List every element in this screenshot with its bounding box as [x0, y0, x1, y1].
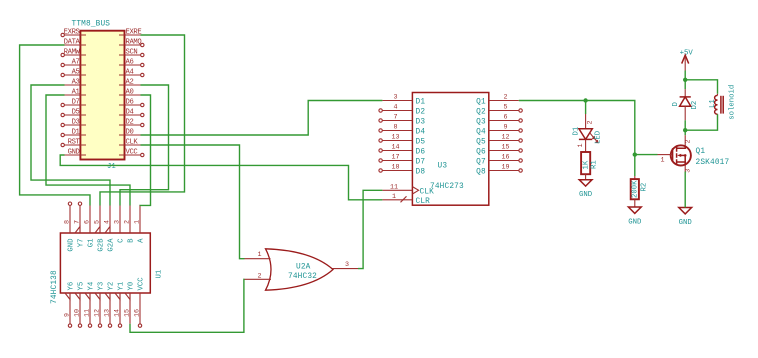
- LED D1: [573, 114, 603, 152]
- wire D0 to U3.D1: [141, 101, 383, 136]
- svg-text:Q1: Q1: [476, 99, 486, 107]
- diode D2: [672, 89, 699, 120]
- wire CLK to U2A.1: [141, 145, 245, 259]
- wire U1.Y0 to U2A.2: [130, 279, 245, 332]
- svg-text:7: 7: [74, 220, 82, 224]
- U3 pin 15 Q6: [476, 144, 522, 157]
- wire L1 bottom to drain node: [685, 114, 717, 130]
- svg-text:U3: U3: [438, 163, 448, 171]
- svg-text:C: C: [118, 238, 126, 243]
- IC U3 74HC273: [412, 93, 488, 206]
- U3 pin 8 D4: [379, 124, 425, 137]
- U3 pin 1 CLR: [382, 193, 430, 206]
- U3 pin 19 Q8: [476, 164, 522, 177]
- U3 pin 17 D7: [379, 154, 425, 167]
- svg-text:DATA: DATA: [64, 39, 81, 47]
- svg-text:L1: L1: [709, 99, 717, 108]
- wire GND to U3.CLR: [60, 155, 382, 200]
- svg-text:3: 3: [114, 220, 122, 224]
- svg-text:1K: 1K: [582, 160, 590, 169]
- U1 pin 6 G1 (top): [84, 206, 96, 248]
- resistor R2 200K: [631, 176, 649, 207]
- wire D2 to Q1 drain: [684, 120, 686, 135]
- svg-text:Y7: Y7: [78, 239, 86, 248]
- wire A1 to U1.B: [46, 95, 130, 206]
- svg-text:Q8: Q8: [476, 169, 486, 177]
- svg-text:D4: D4: [416, 129, 426, 137]
- svg-text:U2A: U2A: [296, 264, 311, 272]
- U2A pin 1 input: [245, 251, 271, 259]
- svg-text:EXRE: EXRE: [126, 29, 142, 37]
- svg-text:16: 16: [501, 154, 509, 162]
- U3 pin 7 D3: [379, 114, 425, 127]
- svg-text:CLR: CLR: [416, 198, 431, 206]
- svg-text:3: 3: [345, 261, 349, 269]
- svg-text:18: 18: [391, 164, 399, 172]
- svg-text:15: 15: [124, 309, 132, 317]
- svg-text:D1: D1: [416, 99, 426, 107]
- svg-text:VCC: VCC: [126, 149, 139, 157]
- wire EXRE to U1.G2B: [100, 35, 185, 206]
- svg-text:9: 9: [64, 313, 72, 317]
- svg-text:A7: A7: [72, 59, 80, 67]
- J1 pin D0 (right row 11): [119, 129, 141, 137]
- svg-text:6: 6: [503, 114, 507, 122]
- U2A pin 3 output: [333, 261, 359, 269]
- svg-text:R1: R1: [591, 160, 599, 169]
- U1 pin 4 G2A (top): [104, 206, 116, 252]
- svg-text:4: 4: [393, 104, 397, 112]
- svg-text:SCN: SCN: [126, 49, 138, 57]
- U2A pin 2 input: [245, 272, 272, 280]
- svg-text:D2: D2: [691, 101, 699, 110]
- J1 pin A3 (left row 6): [65, 79, 87, 87]
- U3 pin 5 Q2: [476, 104, 522, 117]
- J1 pin D3 (left row 10): [61, 119, 86, 127]
- svg-text:A4: A4: [126, 69, 134, 77]
- U3 pin 6 Q3: [476, 114, 522, 127]
- J1 pin D2 (right row 10): [119, 119, 144, 127]
- svg-text:1: 1: [134, 220, 142, 224]
- svg-text:D4: D4: [126, 109, 134, 117]
- svg-text:2: 2: [587, 120, 595, 124]
- svg-text:D2: D2: [416, 109, 426, 117]
- svg-text:RST: RST: [68, 139, 81, 147]
- svg-text:G1: G1: [88, 238, 96, 247]
- U3 pin 4 D2: [379, 104, 425, 117]
- svg-text:5: 5: [503, 104, 507, 112]
- svg-text:Q6: Q6: [476, 149, 486, 157]
- svg-text:7: 7: [393, 114, 397, 122]
- svg-text:A1: A1: [72, 89, 80, 97]
- svg-text:Q2: Q2: [476, 109, 486, 117]
- svg-text:GND: GND: [679, 219, 693, 227]
- svg-text:Q5: Q5: [476, 139, 486, 147]
- svg-text:2: 2: [503, 94, 507, 102]
- svg-text:200K: 200K: [631, 180, 639, 198]
- svg-text:D3: D3: [72, 119, 80, 127]
- svg-text:D6: D6: [126, 99, 134, 107]
- svg-text:VCC: VCC: [138, 277, 146, 291]
- resistor R1 1K: [581, 152, 599, 180]
- svg-text:15: 15: [501, 144, 509, 152]
- svg-text:G2A: G2A: [108, 238, 116, 252]
- J1 pin A5 (left row 5): [61, 69, 86, 77]
- svg-text:6: 6: [84, 220, 92, 224]
- svg-text:D5: D5: [416, 139, 426, 147]
- ground GND (below R2): [628, 207, 642, 226]
- svg-text:+5V: +5V: [680, 49, 694, 57]
- svg-text:Y6: Y6: [68, 282, 76, 291]
- U1 pin 11 Y4 (bottom): [84, 281, 96, 327]
- U1 pin 5 G2B (top): [94, 206, 106, 252]
- ground GND (below Q1 source): [679, 208, 693, 227]
- U1 pin 16 VCC (bottom): [134, 277, 146, 328]
- J1 pin A4 (right row 5): [119, 69, 144, 77]
- svg-text:74HC138: 74HC138: [51, 270, 59, 304]
- U1 pin 13 Y2 (bottom): [104, 282, 116, 328]
- svg-text:Q1: Q1: [696, 148, 706, 156]
- svg-text:1: 1: [577, 143, 585, 147]
- svg-text:14: 14: [114, 309, 122, 317]
- svg-text:17: 17: [391, 154, 399, 162]
- svg-text:1: 1: [257, 251, 261, 259]
- svg-text:D7: D7: [416, 159, 426, 167]
- transistor Q1 2SK4017 (N-MOSFET): [658, 135, 730, 173]
- U1 pin 15 Y0 (bottom): [124, 282, 136, 324]
- J1 pin CLK (right row 12): [119, 139, 141, 147]
- svg-text:19: 19: [501, 164, 509, 172]
- U3 pin 18 D8: [379, 164, 425, 177]
- svg-text:Y0: Y0: [128, 282, 136, 291]
- U3 pin 12 Q5: [476, 134, 522, 147]
- node +5V / D2 / L1: [683, 78, 687, 82]
- J1 pin EXRS (left row 1): [61, 29, 86, 37]
- svg-text:GND: GND: [628, 218, 642, 226]
- svg-text:Y3: Y3: [98, 282, 106, 291]
- U3 pin 14 D6: [379, 144, 425, 157]
- wire A0 to U1.A: [140, 95, 151, 206]
- svg-text:Y1: Y1: [118, 281, 126, 290]
- connector J1 TTM8_BUS: [72, 21, 125, 172]
- J1 pin A6 (right row 4): [119, 59, 144, 67]
- U3 pin 16 Q7: [476, 154, 522, 167]
- wire +5V rail: [684, 71, 686, 90]
- J1 pin RAMW (left row 3): [61, 49, 86, 57]
- U3 pin 3 D1: [382, 94, 425, 107]
- OR gate U2A 74HC32: [266, 249, 334, 290]
- svg-text:1: 1: [661, 156, 665, 164]
- svg-text:D3: D3: [416, 119, 426, 127]
- J1 pin RST (left row 12): [61, 139, 86, 147]
- svg-text:2: 2: [257, 272, 261, 280]
- svg-text:D8: D8: [416, 169, 426, 177]
- svg-text:A2: A2: [126, 79, 134, 87]
- wire Q1 source to GND: [684, 172, 686, 208]
- U3 pin 11 CLK: [382, 183, 434, 196]
- svg-text:D1: D1: [72, 129, 80, 137]
- J1 pin EXRE (right row 1): [119, 29, 141, 37]
- svg-text:Q4: Q4: [476, 129, 486, 137]
- svg-text:5: 5: [94, 220, 102, 224]
- ground GND (below R1): [579, 180, 593, 199]
- svg-text:2: 2: [685, 139, 693, 143]
- svg-text:8: 8: [64, 220, 72, 224]
- node D2 / L1 / drain: [683, 128, 687, 132]
- svg-text:13: 13: [104, 309, 112, 317]
- svg-text:Y5: Y5: [78, 282, 86, 291]
- U1 pin 9 Y6 (bottom): [64, 282, 76, 328]
- svg-text:J1: J1: [107, 163, 116, 171]
- wire U2A.3 to U3.CLK: [358, 190, 382, 268]
- svg-text:TTM8_BUS: TTM8_BUS: [72, 21, 111, 29]
- J1 pin D7 (left row 8): [61, 99, 86, 107]
- J1 pin D4 (right row 9): [119, 109, 144, 117]
- J1 pin SCN (right row 3): [119, 49, 144, 57]
- J1 pin A0 (right row 7): [119, 89, 141, 97]
- J1 pin D6 (right row 8): [119, 99, 144, 107]
- U1 pin 1 A (top): [134, 206, 146, 243]
- U3 pin 2 Q1: [476, 94, 519, 107]
- svg-text:1: 1: [392, 193, 396, 201]
- svg-text:Q3: Q3: [476, 119, 486, 127]
- svg-text:A: A: [138, 238, 146, 243]
- J1 pin GND (left row 13): [65, 149, 87, 157]
- svg-text:A0: A0: [126, 89, 134, 97]
- wire U3.Q1 to gate node: [519, 101, 658, 155]
- svg-text:Y4: Y4: [88, 281, 96, 290]
- svg-text:RAMW: RAMW: [64, 49, 81, 57]
- svg-text:solenoid: solenoid: [728, 85, 736, 120]
- svg-text:A5: A5: [72, 69, 80, 77]
- svg-text:LED: LED: [595, 130, 603, 144]
- svg-text:D5: D5: [72, 109, 80, 117]
- svg-text:14: 14: [391, 144, 399, 152]
- IC U1 74HC138: [51, 233, 164, 304]
- svg-text:GND: GND: [68, 238, 76, 252]
- svg-text:D0: D0: [126, 129, 134, 137]
- J1 pin DATA (left row 2): [64, 39, 86, 47]
- svg-text:11: 11: [84, 309, 92, 317]
- svg-text:A6: A6: [126, 59, 134, 67]
- J1 pin A1 (left row 7): [65, 89, 87, 97]
- svg-text:12: 12: [501, 134, 509, 142]
- U1 pin 14 Y1 (bottom): [114, 281, 126, 327]
- J1 pin D1 (left row 11): [61, 129, 86, 137]
- node LED branch: [583, 98, 587, 102]
- svg-text:GND: GND: [68, 149, 80, 157]
- J1 pin D5 (left row 9): [61, 109, 86, 117]
- J1 pin A7 (left row 4): [61, 59, 86, 67]
- svg-text:2SK4017: 2SK4017: [696, 159, 730, 167]
- svg-text:D7: D7: [72, 99, 80, 107]
- node Q1 gate / R2: [633, 152, 637, 156]
- svg-text:CLK: CLK: [126, 139, 139, 147]
- svg-text:D2: D2: [126, 119, 134, 127]
- svg-text:A3: A3: [72, 79, 80, 87]
- wire A3 to U1.G2A: [31, 85, 110, 206]
- U1 pin 2 B (top): [124, 206, 136, 243]
- svg-text:EXRS: EXRS: [64, 29, 80, 37]
- svg-text:RAMQ: RAMQ: [126, 39, 142, 47]
- svg-text:R2: R2: [640, 183, 648, 192]
- svg-text:G2B: G2B: [98, 238, 106, 252]
- svg-text:GND: GND: [579, 191, 593, 199]
- svg-text:Y2: Y2: [108, 282, 116, 291]
- svg-text:8: 8: [393, 124, 397, 132]
- svg-text:10: 10: [74, 309, 82, 317]
- wire node to LED D1: [585, 101, 587, 115]
- svg-text:U1: U1: [156, 269, 164, 278]
- wire +5V to L1 top: [685, 80, 717, 94]
- U1 pin 3 C (top): [114, 206, 126, 243]
- svg-text:74HC273: 74HC273: [430, 183, 464, 191]
- U1 pin 7 Y7 (top): [74, 202, 86, 247]
- svg-text:D1: D1: [573, 126, 581, 135]
- power +5V: [680, 49, 694, 70]
- inductor L1 solenoid: [709, 85, 736, 120]
- svg-text:Q7: Q7: [476, 159, 486, 167]
- wire node to R2: [634, 155, 636, 176]
- svg-text:13: 13: [391, 134, 399, 142]
- U3 pin 13 D5: [379, 134, 425, 147]
- U3 pin 9 Q4: [476, 124, 522, 137]
- svg-text:3: 3: [393, 94, 397, 102]
- wire A2 to U1.C: [120, 85, 169, 206]
- J1 pin A2 (right row 6): [119, 79, 141, 87]
- svg-text:12: 12: [94, 309, 102, 317]
- U1 pin 10 Y5 (bottom): [74, 282, 86, 328]
- svg-text:B: B: [128, 238, 136, 243]
- svg-text:4: 4: [104, 220, 112, 224]
- svg-text:74HC32: 74HC32: [288, 273, 317, 281]
- svg-text:D: D: [672, 102, 680, 107]
- svg-text:D6: D6: [416, 149, 426, 157]
- svg-text:CLK: CLK: [420, 188, 435, 196]
- J1 pin RAMQ (right row 2): [119, 39, 144, 47]
- J1 pin VCC (right row 13): [119, 149, 144, 157]
- svg-text:16: 16: [134, 309, 142, 317]
- svg-text:2: 2: [124, 220, 132, 224]
- U1 pin 8 GND (top): [64, 202, 76, 252]
- U1 pin 12 Y3 (bottom): [94, 282, 106, 328]
- svg-text:11: 11: [390, 183, 398, 191]
- wire DATA to U1.G1: [20, 45, 90, 206]
- svg-text:9: 9: [503, 124, 507, 132]
